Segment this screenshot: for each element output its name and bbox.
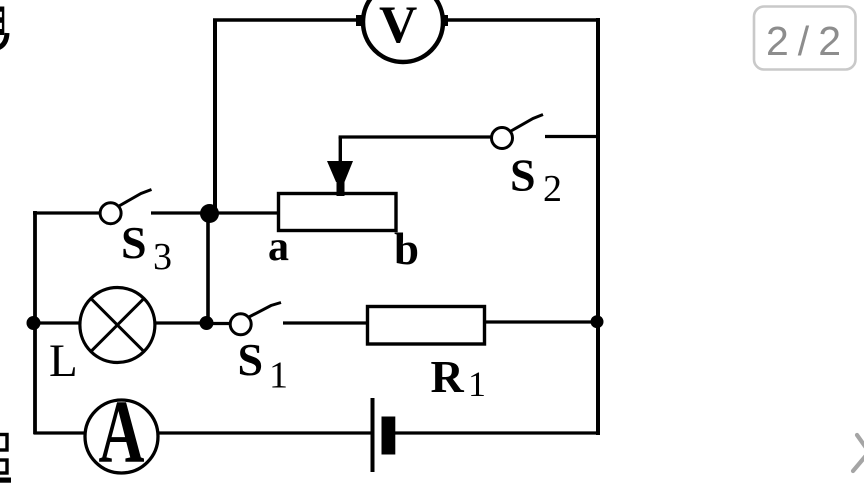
wire right vertical [596, 18, 600, 435]
svg-text:a: a [268, 224, 289, 270]
switch S1 [230, 303, 281, 335]
node J1 junction [200, 204, 219, 223]
wire left riser vertical [213, 20, 217, 214]
clipped character top left [0, 7, 7, 48]
voltmeter U1 [363, 0, 443, 62]
wire bottom right segment [394, 431, 600, 434]
switch S2 [492, 115, 544, 149]
voltmeter U1 lead nub right [439, 15, 448, 26]
wire J2 to S1 [211, 322, 230, 325]
wire wiper to S2 [339, 135, 491, 138]
svg-text:1: 1 [269, 355, 288, 397]
svg-text:V: V [379, 0, 417, 54]
svg-text:b: b [394, 224, 419, 274]
wire J1 to rheostat [216, 211, 280, 214]
wire R1 right segment [484, 320, 593, 323]
wire bottom middle segment [158, 431, 371, 434]
wire wiper riser [339, 137, 342, 166]
svg-text:1: 1 [468, 364, 486, 404]
battery BT1 [373, 398, 396, 472]
wire bottom left segment [34, 431, 86, 434]
clipped character bottom left [0, 435, 11, 483]
wire top horizontal [213, 18, 598, 22]
svg-text:L: L [49, 335, 78, 387]
wire S1 right segment [283, 321, 369, 324]
page indicator 2/2 badge [754, 7, 856, 70]
node J4 junction [591, 315, 604, 328]
svg-text:R: R [431, 351, 465, 402]
wire S3 left segment [33, 211, 101, 214]
resistor R1 [368, 307, 485, 345]
wire left vertical [33, 211, 37, 434]
svg-text:S: S [510, 150, 536, 201]
rheostat wiper arrow [327, 161, 353, 196]
wire middle vertical J1 to J2 [206, 213, 210, 323]
switch S3 [100, 190, 151, 224]
node J3 junction [27, 316, 41, 330]
next arrow chevron [853, 435, 864, 471]
svg-text:2: 2 [543, 168, 562, 210]
wire lamp left segment [33, 321, 81, 324]
svg-text:A: A [99, 382, 145, 481]
wire S2 right segment [545, 135, 598, 138]
svg-text:S: S [238, 334, 264, 385]
wire S3 right segment [151, 211, 203, 214]
rheostat body ab [279, 194, 397, 231]
svg-text:S: S [121, 217, 147, 268]
svg-text:3: 3 [153, 236, 172, 278]
node J2 junction [200, 316, 214, 330]
svg-text:2/2: 2/2 [766, 18, 850, 64]
wire lamp right segment [155, 321, 201, 324]
ammeter U2 [85, 382, 158, 481]
voltmeter U1 lead nub left [356, 15, 365, 26]
lamp L [80, 288, 155, 363]
